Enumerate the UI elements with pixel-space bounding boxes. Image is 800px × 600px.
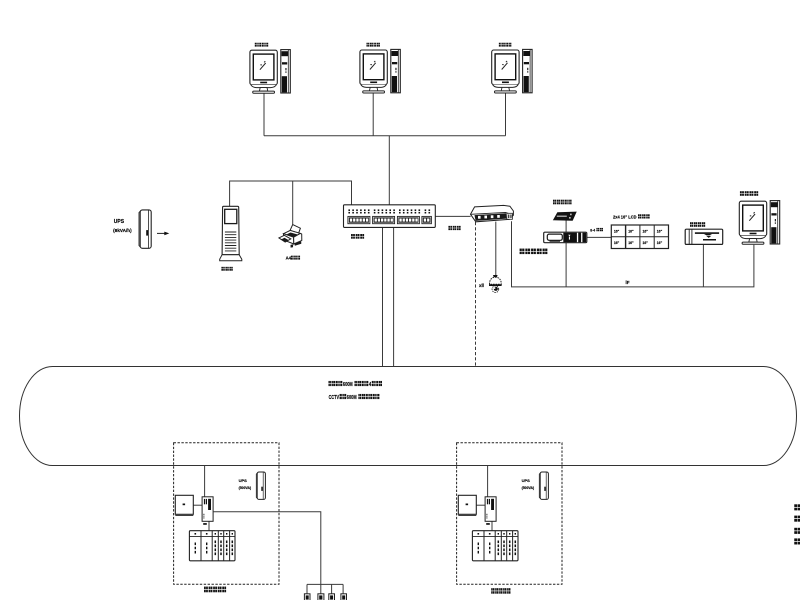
wire printer drop [292,181,294,224]
svg-text:A4: A4 [286,256,292,261]
wire dvr to lcd wall [587,236,611,238]
svg-text:16": 16" [614,241,620,245]
svg-text:16": 16" [657,229,663,233]
wire dashed fiber down [475,222,477,367]
svg-text:16": 16" [643,229,649,233]
wire layer3 switch to dvr [565,220,567,232]
workstation WS1 [250,43,290,93]
svg-text:16": 16" [628,241,634,245]
wire converter to camera [495,222,497,275]
wire WS1 drop [263,93,265,136]
svg-text:UPS: UPS [114,219,125,225]
wire dvr drop [565,243,567,287]
svg-text:2x4 16" LCD: 2x4 16" LCD [613,215,637,220]
fiber ring backbone [20,367,797,466]
layer-3 switch (black) [553,200,576,221]
arrow [157,232,169,236]
wire WS2 drop [372,93,374,136]
DVR / video matrix [520,228,603,254]
server tower [220,206,242,270]
ring text [328,381,382,401]
wire server riser [230,181,352,206]
workstation WS2 [360,43,400,93]
control keyboard [685,222,723,244]
wire switch down to ring A [382,227,384,366]
svg-text:600M: 600M [347,395,357,401]
workstation WS4 video monitor [739,191,779,244]
svg-text:(8kVA/h): (8kVA/h) [113,228,132,233]
wire bus to switch [388,136,390,205]
svg-text:8-4: 8-4 [590,228,595,232]
svg-text:16": 16" [628,229,634,233]
svg-text:16": 16" [614,229,620,233]
wire keyboard drop [702,245,704,287]
bottom camera terminals [304,594,346,600]
svg-text:lF: lF [626,280,630,285]
UPS main [113,210,151,248]
LCD TV wall 2x4 [611,214,668,248]
wire workstation bus [264,135,506,137]
svg-text:CCTV: CCTV [329,395,340,401]
ethernet switch [344,205,436,239]
wire right bus [512,221,754,287]
substation A (left) [174,443,279,585]
wire switch down to ring B [393,227,395,366]
substation B label [491,588,493,590]
wire manifold from substation A [213,512,343,594]
wire switch to converter [435,215,470,217]
svg-text:16": 16" [643,241,649,245]
dome camera [479,275,502,293]
substation B (right) [457,443,562,585]
right margin vertical note [794,504,800,544]
fiber transceiver (3D hub) [448,205,513,230]
substation A label [204,587,206,590]
svg-text:600M: 600M [343,382,353,388]
wire WS3 drop [505,93,507,136]
workstation WS3 [492,43,532,93]
printer A4 [279,225,302,261]
svg-text:xll: xll [479,283,484,288]
svg-text:4: 4 [369,382,371,388]
svg-text:16": 16" [657,241,663,245]
